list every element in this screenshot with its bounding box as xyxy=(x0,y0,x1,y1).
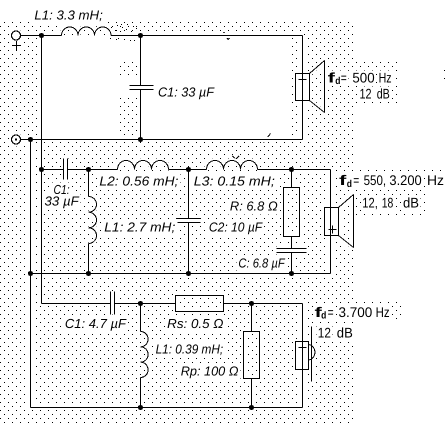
label C1 value line1 (mid) xyxy=(52,182,72,198)
wire top section top rail xyxy=(42,35,303,37)
label fd 500 Hz xyxy=(326,69,393,87)
capacitor C1 33 uF (mid section, series) xyxy=(64,159,68,180)
junction C2 top xyxy=(186,167,191,172)
svg-text:L1: 0.39 mH;: L1: 0.39 mH; xyxy=(156,341,224,356)
label C1 33 uF value (top) xyxy=(156,85,216,101)
svg-text:Hz: Hz xyxy=(427,172,444,188)
inductor L1 2.7 mH (mid section) xyxy=(89,197,97,244)
junction Rp top xyxy=(249,301,254,306)
wire C2 branch xyxy=(188,170,190,274)
svg-text:R: 6.8 Ω: R: 6.8 Ω xyxy=(230,198,278,213)
label Rs value xyxy=(165,316,225,332)
wire C1 top branch xyxy=(140,36,142,140)
svg-text:18: 18 xyxy=(382,195,394,211)
svg-text:12,: 12, xyxy=(362,195,378,211)
svg-text:C2: 10 µF: C2: 10 µF xyxy=(209,219,263,234)
svg-text:12: 12 xyxy=(318,324,331,340)
resistor Rp 100 ohm xyxy=(244,332,260,379)
capacitor C1 4.7 uF (bottom section, series) xyxy=(111,292,115,315)
svg-text:Hz: Hz xyxy=(379,69,392,85)
label 12 dB (bottom) xyxy=(316,324,354,341)
wire bottom L1 branch xyxy=(140,304,142,408)
svg-text:d: d xyxy=(321,311,326,322)
label 12 18 dB (mid) xyxy=(361,195,421,212)
resistor Rs 0.5 ohm xyxy=(176,296,224,312)
svg-text:33 µF: 33 µF xyxy=(45,193,80,208)
svg-text:Rp: 100 Ω: Rp: 100 Ω xyxy=(181,364,239,379)
input terminal + xyxy=(12,31,22,50)
svg-text:f: f xyxy=(339,172,347,188)
junction C2 bottom xyxy=(186,271,191,276)
wire mid section top rail xyxy=(42,169,331,171)
wire bottom section top rail xyxy=(42,303,303,305)
junction C1 bottom of branch xyxy=(138,137,143,142)
svg-text:12: 12 xyxy=(360,86,372,102)
label C value xyxy=(236,255,286,271)
label 12 dB (top) xyxy=(358,86,391,103)
capacitor C1 33 uF (top section) xyxy=(130,86,154,90)
svg-text:C1: 4.7 µF: C1: 4.7 µF xyxy=(65,316,127,331)
svg-text:Rs: 0.5 Ω: Rs: 0.5 Ω xyxy=(167,316,223,331)
svg-text:L2: 0.56 mH;: L2: 0.56 mH; xyxy=(99,173,178,188)
junction node B (input -) xyxy=(28,137,33,142)
svg-text:dB: dB xyxy=(337,324,353,340)
resistor R 6.8 ohm xyxy=(284,188,300,237)
label R value xyxy=(228,198,280,214)
input terminal - xyxy=(12,135,21,144)
wire bottom section right side xyxy=(302,304,304,408)
speaker midrange (mid section) xyxy=(325,170,354,274)
inductor L3 0.15 mH xyxy=(207,161,258,170)
wire input + terminal to junction A xyxy=(21,35,42,37)
junction bottom L1 top xyxy=(138,301,143,306)
wire top section right side xyxy=(302,36,304,140)
capacitor C2 10 uF xyxy=(177,219,201,223)
svg-text:3.200: 3.200 xyxy=(389,172,421,188)
capacitor C 6.8 uF xyxy=(277,249,307,253)
wire mid L1 branch xyxy=(88,170,90,274)
label L1 0.39 mH value xyxy=(154,341,226,357)
junction mid L1 bottom xyxy=(86,271,91,276)
label fd 550 3200 Hz xyxy=(338,172,445,190)
label fd 3700 Hz xyxy=(313,304,391,322)
svg-text:dB: dB xyxy=(377,86,390,102)
label L1 3.3 mH value xyxy=(32,8,104,24)
junction Rp bottom xyxy=(249,405,254,410)
junction R top xyxy=(289,167,294,172)
inductor L2 0.56 mH xyxy=(118,161,169,170)
wire R-C branch xyxy=(291,170,293,274)
svg-text:3.700: 3.700 xyxy=(339,304,373,320)
svg-text:=: = xyxy=(353,172,359,188)
label C1 4.7 uF value xyxy=(63,316,128,332)
wire bottom section bottom rail xyxy=(31,407,303,409)
label C1 value line2 (mid) xyxy=(43,193,81,209)
wire top section bottom rail xyxy=(21,139,303,141)
junction - rail to mid bottom rail xyxy=(28,271,33,276)
svg-text:500: 500 xyxy=(352,69,374,85)
label L3 value xyxy=(192,173,277,189)
wire mid section right side xyxy=(330,170,332,274)
svg-text:=: = xyxy=(328,304,334,320)
speaker tweeter (bottom section) xyxy=(296,304,315,408)
svg-text:=: = xyxy=(341,69,347,85)
wire - rail vertical xyxy=(30,140,32,408)
inductor L1 3.3 mH (top section) xyxy=(62,27,112,35)
svg-text:L1: 2.7 mH;: L1: 2.7 mH; xyxy=(104,219,175,234)
svg-text:L3: 0.15 mH;: L3: 0.15 mH; xyxy=(194,173,275,188)
label L2 value xyxy=(97,173,180,189)
svg-text:C1: 33 µF: C1: 33 µF xyxy=(158,85,215,100)
label L1 2.7 mH value xyxy=(102,219,177,235)
wire Rp branch xyxy=(251,304,253,408)
junction C1 top of branch xyxy=(138,33,143,38)
svg-text:d: d xyxy=(335,76,340,87)
junction bottom L1 bottom xyxy=(138,405,143,410)
wire mid section bottom rail xyxy=(31,273,331,275)
svg-text:d: d xyxy=(347,179,352,190)
label Rp value xyxy=(179,364,241,380)
inductor L1 0.39 mH (bottom section) xyxy=(141,332,149,378)
svg-text:Hz: Hz xyxy=(376,304,390,320)
speaker woofer (top section) xyxy=(296,36,325,140)
svg-text:C: 6.8 µF: C: 6.8 µF xyxy=(238,255,285,270)
junction + rail to mid rail xyxy=(39,167,44,172)
label C2 value xyxy=(207,219,264,235)
junction mid L1 top xyxy=(86,167,91,172)
junction C bottom xyxy=(289,271,294,276)
svg-text:dB: dB xyxy=(403,195,419,211)
svg-text:L1: 3.3 mH;: L1: 3.3 mH; xyxy=(34,8,103,23)
svg-text:550,: 550, xyxy=(364,172,387,188)
wire + rail vertical xyxy=(41,36,43,304)
junction node A (input +) xyxy=(39,33,44,38)
